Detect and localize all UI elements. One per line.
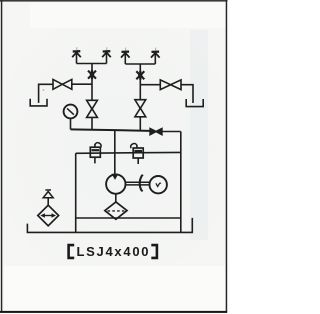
shut-off valve V2 (right bowtie) bbox=[160, 80, 181, 90]
photo frame bbox=[0, 0, 228, 2]
shut-off valve V3 (solid bowtie) bbox=[150, 129, 162, 135]
wire: valve V1 to left drain bbox=[39, 84, 53, 103]
wire: branch to right shut-off valve bbox=[140, 84, 160, 86]
manifold header right bbox=[125, 63, 155, 65]
wire: right vertical return line bbox=[180, 132, 182, 233]
wire: pressure bus bbox=[71, 129, 151, 131]
air breather AB1 bbox=[38, 190, 59, 226]
exhaust arrow E3 (right manifold, left) bbox=[121, 52, 130, 64]
check valve CV2 (right hourglass) bbox=[135, 100, 146, 131]
shaft: pump to motor bbox=[126, 182, 150, 185]
relief valve RV2 bbox=[131, 143, 144, 164]
node: pump inlet arrow bbox=[112, 174, 117, 179]
pump P1 bbox=[106, 174, 125, 193]
pressure gauge PG bbox=[64, 105, 78, 130]
label bracket left bbox=[69, 245, 75, 258]
shut-off valve V1 (left bowtie) bbox=[53, 79, 72, 89]
plugged port X1 (asterisk) bbox=[88, 70, 96, 79]
drain tank T1 (left cup) bbox=[30, 99, 47, 106]
motor M1 bbox=[150, 176, 167, 193]
relief valve RV1 bbox=[90, 143, 101, 164]
wire: relief header line bbox=[76, 151, 181, 154]
wire: valve V2 to right drain bbox=[181, 85, 193, 103]
manifold header left bbox=[77, 63, 107, 65]
exhaust arrow E4 (right manifold, right) bbox=[151, 52, 160, 64]
svg-text:LSJ4x400: LSJ4x400 bbox=[77, 244, 149, 259]
exhaust arrow E2 (left manifold, right) bbox=[102, 51, 111, 63]
wire: valve V3 to right down line bbox=[162, 131, 181, 133]
drain tank T2 (right cup) bbox=[186, 99, 203, 107]
wire: left stem bbox=[91, 64, 93, 101]
plugged port X2 (asterisk) bbox=[136, 71, 144, 80]
wire: block bottom line bbox=[76, 217, 181, 219]
coupling bbox=[140, 175, 143, 191]
oil tank T3 bbox=[27, 218, 192, 233]
wire: right stem bbox=[139, 64, 141, 100]
wire: branch to left shut-off valve bbox=[72, 83, 92, 85]
red speck bbox=[43, 89, 45, 91]
photo background bbox=[2, 1, 226, 311]
check valve CV1 (left hourglass) bbox=[87, 100, 98, 129]
wire: pump pressure line bbox=[114, 130, 116, 175]
wire: left vertical suction line bbox=[75, 153, 77, 232]
suction filter F1 bbox=[105, 202, 127, 219]
exhaust arrow E1 (left manifold, left) bbox=[72, 51, 81, 63]
faint scan ticks above exhaust arrows bbox=[77, 47, 156, 50]
wire: pump suction bbox=[115, 194, 117, 202]
label bracket right bbox=[151, 245, 157, 258]
